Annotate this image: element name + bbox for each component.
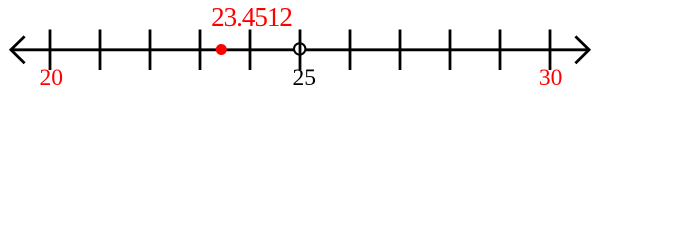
- tick 20: [49, 30, 52, 71]
- svg-text:25: 25: [292, 65, 316, 91]
- svg-text:23.4512: 23.4512: [211, 2, 292, 32]
- tick 25: [299, 30, 302, 71]
- svg-text:20: 20: [40, 65, 64, 91]
- right arrowhead: [575, 36, 589, 63]
- number line axis: [11, 48, 589, 51]
- tick 27: [399, 30, 402, 71]
- svg-text:30: 30: [539, 65, 563, 91]
- tick 29: [499, 30, 502, 71]
- tick 24: [249, 30, 252, 71]
- tick 28: [449, 30, 452, 71]
- tick 23: [199, 30, 202, 71]
- tick 21: [99, 30, 102, 71]
- tick 22: [149, 30, 152, 71]
- left arrowhead: [11, 36, 25, 63]
- tick 30: [549, 30, 552, 71]
- open circle at 25: [294, 43, 305, 54]
- tick 26: [349, 30, 352, 71]
- plotted point 23.4512: [216, 44, 227, 55]
